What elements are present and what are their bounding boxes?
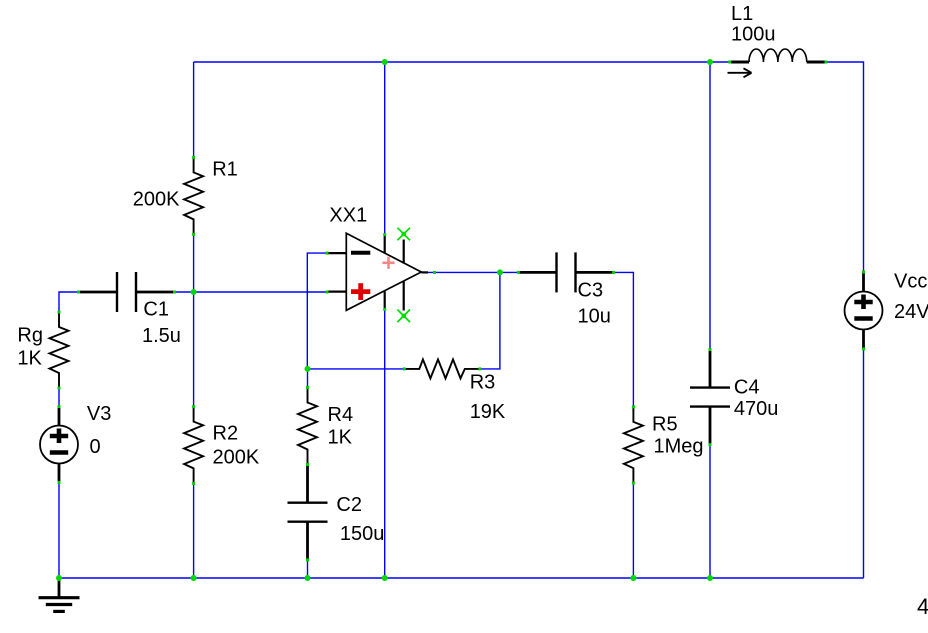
svg-text:1Meg: 1Meg [654,436,704,458]
svg-text:470u: 470u [734,398,779,420]
op-amp output pin [421,271,428,273]
wire bottom ground rail [59,577,864,579]
op-amp V+ pin stub [384,235,386,254]
svg-text:1.5u: 1.5u [142,325,181,347]
wire Vcc to ground rail [863,349,865,578]
svg-text:V3: V3 [87,403,111,425]
wire op-amp V+ supply (top rail down) [384,62,386,235]
wire node to R4 [307,369,309,388]
wire C2 to ground rail [307,560,309,578]
wire feedback row right (R3 up to output) [480,272,500,369]
capacitor C3 [518,271,556,274]
voltage source V3 [58,407,61,426]
capacitor C1 [79,291,118,294]
junction ground rail / R2 [191,575,197,581]
svg-text:L1: L1 [731,3,753,25]
svg-text:1K: 1K [328,427,353,449]
no-connect X bottom [397,310,410,323]
svg-text:200K: 200K [133,189,180,211]
svg-text:4: 4 [917,594,928,619]
capacitor C2 [306,465,309,503]
no-connect X top [397,228,410,241]
resistor R3 [404,359,480,378]
svg-text:C4: C4 [734,377,760,399]
junction ground rail / C4 [707,575,713,581]
junction input row / R1-R2 column [191,289,197,295]
wire feedback row left (node to R3) [308,368,405,370]
op-amp NC pin top [403,240,405,264]
wire left column middle (R1 to R2) [193,234,195,406]
svg-text:200K: 200K [213,447,260,469]
voltage source Vcc [862,272,865,292]
component terminal dots [192,156,195,159]
wire output row (op-amp to C3) [428,271,519,273]
junction ground rail / R5 [630,575,636,581]
svg-text:24V: 24V [894,301,928,323]
svg-text:XX1: XX1 [329,205,367,227]
resistor Rg [50,312,69,388]
junction top rail / op-amp supply [382,59,388,65]
junction output / feedback [497,269,503,275]
junction ground rail / C2 [305,575,311,581]
inductor L1 [730,61,749,64]
svg-text:C2: C2 [336,494,362,516]
op-amp V- pin stub [384,291,386,309]
svg-text:19K: 19K [470,401,506,423]
junction top rail / C4 branch [707,59,713,65]
svg-text:C3: C3 [578,280,604,302]
junction -input / R4 / R3 node [305,366,311,372]
resistor R1 [184,157,203,234]
svg-text:1K: 1K [17,348,42,370]
resistor R2 [184,407,203,484]
wire L1 to Vcc top [826,62,864,272]
svg-text:100u: 100u [731,24,776,46]
wire op-amp V- supply (down to ground rail) [384,309,386,578]
junction ground rail / op-amp V- [382,575,388,581]
op-amp XX1 body [346,233,421,310]
svg-text:R5: R5 [652,414,678,436]
resistor R5 [624,407,643,483]
wire left column upper (top rail to R1) [193,62,195,157]
svg-text:Vcc: Vcc [894,271,927,293]
capacitor C4 [709,350,712,388]
op-amp +input pin [327,291,346,293]
op-amp NC pin bottom [403,281,405,310]
current arrow (L1) [728,72,752,74]
svg-text:0: 0 [90,436,101,458]
wire top rail [194,61,730,63]
wire R5 to ground rail [632,483,634,578]
wire -input loop [307,253,327,369]
wire input row right (C1 to +input) [175,291,328,293]
op-amp offset plus (pink) [382,261,394,264]
wire left column lower (R2 to ground rail) [193,483,195,578]
op-amp plus symbol (red) [351,289,370,294]
junction ground rail / V3 [56,575,62,581]
op-amp minus symbol [351,251,370,255]
svg-text:R3: R3 [470,372,496,394]
wire Rg to V3 [58,388,60,407]
wire input row left (corner to C1) [59,292,79,312]
svg-text:R4: R4 [328,404,354,426]
svg-text:10u: 10u [578,306,611,328]
resistor R4 [298,388,317,465]
wire C4 column upper [709,62,711,350]
svg-text:150u: 150u [340,523,385,545]
svg-text:R1: R1 [212,159,238,181]
wire C4 to ground rail [709,445,711,578]
ground [58,578,61,598]
wire C3 to R5 [614,272,634,407]
svg-text:Rg: Rg [17,325,43,347]
svg-text:C1: C1 [143,299,169,321]
wire V3 to ground rail [58,483,60,579]
svg-text:R2: R2 [213,423,239,445]
op-amp -input pin [327,252,346,254]
